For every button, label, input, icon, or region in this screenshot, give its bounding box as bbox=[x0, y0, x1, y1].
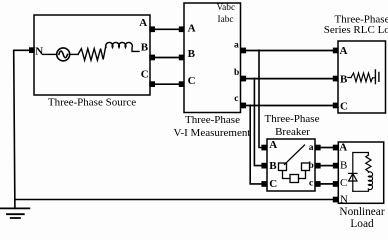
V-I input port C bbox=[179, 81, 185, 87]
wire c to RLC load C bbox=[246, 105, 333, 107]
wire breaker b to NL load B bbox=[321, 165, 333, 167]
source input port N bbox=[29, 47, 35, 53]
NL icon diode cathode bar bbox=[349, 172, 357, 174]
RLC input port B bbox=[333, 76, 339, 82]
wire source to resistor bbox=[70, 53, 79, 55]
NL input port N bbox=[333, 197, 339, 203]
svg-text:Series RLC Load: Series RLC Load bbox=[324, 24, 388, 36]
V-I input port B bbox=[179, 55, 185, 61]
wire source B to V-I B bbox=[155, 57, 179, 59]
NL input port B bbox=[333, 163, 339, 169]
breaker bottom snubber square bbox=[290, 175, 299, 183]
wire source A to V-I A bbox=[155, 28, 179, 30]
source output port C bbox=[149, 81, 155, 87]
svg-text:A: A bbox=[139, 17, 147, 29]
Nonlinear Load block bbox=[338, 142, 383, 203]
svg-text:Breaker: Breaker bbox=[275, 126, 310, 138]
wire b to RLC load B bbox=[246, 78, 333, 80]
svg-text:a: a bbox=[309, 143, 314, 153]
wire breaker c to NL load C bbox=[321, 183, 333, 185]
RLC icon capacitor plate 1 bbox=[374, 70, 376, 84]
RLC icon lead from B bbox=[348, 77, 351, 79]
RLC input port A bbox=[333, 48, 339, 54]
source output port A bbox=[149, 26, 155, 32]
Three-Phase Series RLC Load block bbox=[338, 41, 386, 113]
svg-text:B: B bbox=[188, 48, 196, 60]
junction b bbox=[253, 78, 255, 80]
svg-text:b: b bbox=[309, 161, 314, 171]
svg-text:Nonlinear: Nonlinear bbox=[339, 206, 384, 218]
NL icon diode triangle bbox=[349, 174, 357, 181]
NL input port A bbox=[333, 145, 339, 151]
svg-text:Three-Phase: Three-Phase bbox=[185, 114, 240, 126]
svg-text:Load: Load bbox=[350, 218, 374, 230]
svg-text:B: B bbox=[340, 73, 348, 85]
V-I output port c bbox=[240, 103, 246, 109]
svg-text:C: C bbox=[188, 75, 196, 87]
resistor Rs zigzag bbox=[78, 45, 106, 60]
svg-text:Three-Phase Source: Three-Phase Source bbox=[48, 97, 136, 109]
breaker input port C bbox=[261, 181, 267, 187]
RLC icon resistor zigzag bbox=[351, 73, 375, 82]
svg-text:Vabc: Vabc bbox=[217, 3, 236, 13]
inductor Ls coil bbox=[106, 42, 139, 51]
sine wave inside source bbox=[59, 51, 68, 58]
breaker snubber left wire bbox=[283, 171, 291, 179]
svg-text:A: A bbox=[188, 22, 196, 34]
svg-text:V-I Measurement: V-I Measurement bbox=[174, 127, 251, 139]
Three-Phase Breaker block bbox=[267, 139, 315, 191]
breaker output port a bbox=[315, 145, 321, 151]
V-I output port b bbox=[240, 76, 246, 82]
wire a to RLC load A bbox=[246, 50, 333, 52]
svg-text:N: N bbox=[340, 193, 348, 205]
Three-Phase V-I Measurement block bbox=[184, 3, 241, 113]
branch wire a down to breaker A bbox=[259, 51, 261, 148]
NL icon resistor vertical zigzag bbox=[366, 155, 371, 172]
ground symbol bbox=[1, 208, 30, 218]
wire N to AC source bbox=[43, 53, 57, 55]
NL input port C bbox=[333, 181, 339, 187]
breaker left contact square bbox=[279, 163, 287, 171]
svg-text:b: b bbox=[234, 68, 239, 78]
breaker snubber right wire bbox=[299, 171, 306, 179]
junction a bbox=[258, 49, 260, 51]
NL icon top wire bbox=[353, 153, 369, 192]
junction c bbox=[249, 104, 251, 106]
svg-text:C: C bbox=[141, 69, 149, 81]
NL icon inductor vertical coil bbox=[353, 172, 373, 192]
svg-text:C: C bbox=[340, 100, 348, 112]
breaker switch blade diagonal bbox=[285, 145, 305, 165]
breaker input port A bbox=[261, 145, 267, 151]
wire N to ground vertical bbox=[14, 50, 29, 208]
breaker input port B bbox=[261, 163, 267, 169]
breaker output port b bbox=[315, 163, 321, 169]
svg-text:a: a bbox=[234, 40, 239, 50]
source output port B bbox=[149, 55, 155, 61]
svg-text:Three-Phase: Three-Phase bbox=[265, 113, 320, 125]
svg-text:A: A bbox=[339, 141, 347, 153]
svg-text:B: B bbox=[340, 159, 347, 171]
wire source C to V-I C bbox=[155, 83, 179, 85]
RLC input port C bbox=[333, 103, 339, 109]
svg-text:A: A bbox=[269, 139, 277, 151]
RLC icon capacitor plate 2 bbox=[378, 73, 380, 82]
svg-text:c: c bbox=[309, 179, 313, 189]
branch wire c down to breaker C bbox=[250, 106, 261, 184]
V-I output port a bbox=[240, 48, 246, 54]
wire breaker a to NL load A bbox=[321, 147, 333, 149]
svg-text:B: B bbox=[269, 160, 277, 172]
breaker output port c bbox=[315, 181, 321, 187]
Three-Phase Source block bbox=[34, 15, 150, 95]
svg-text:C: C bbox=[269, 178, 277, 190]
AC voltage source circle bbox=[57, 48, 70, 61]
svg-text:N: N bbox=[35, 45, 43, 57]
svg-text:A: A bbox=[340, 45, 348, 57]
breaker right contact square bbox=[302, 163, 310, 171]
ground wire to Nonlinear Load N bbox=[15, 199, 333, 201]
svg-text:C: C bbox=[340, 177, 347, 189]
svg-text:B: B bbox=[141, 42, 149, 54]
branch wire b down to breaker B bbox=[254, 79, 261, 166]
svg-text:Iabc: Iabc bbox=[218, 15, 234, 25]
svg-text:c: c bbox=[234, 94, 238, 104]
V-I input port A bbox=[179, 26, 185, 32]
